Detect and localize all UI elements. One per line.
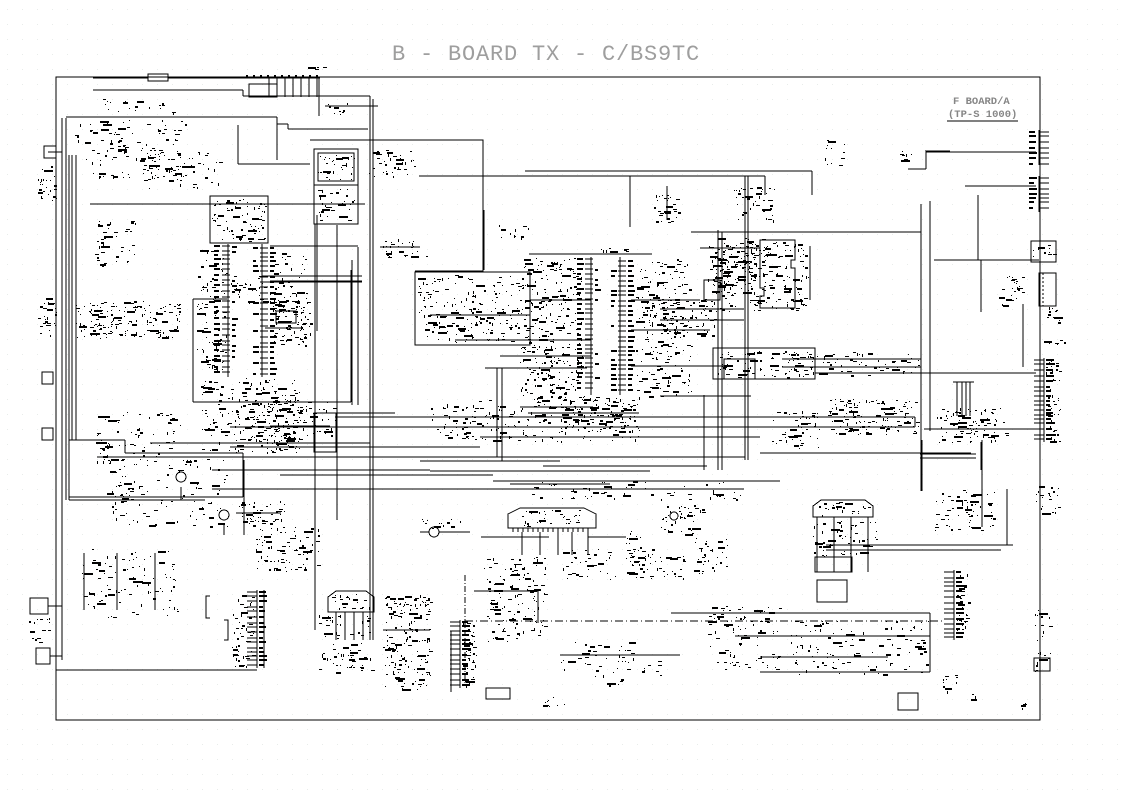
wire [929,201,931,431]
connector pin [300,77,302,97]
component box [815,557,852,572]
IC301 pins and labels [748,242,809,311]
wire [629,176,631,227]
dash-dot wire [465,620,945,622]
bus wire [480,436,760,438]
wire [760,656,888,658]
delay line pin [552,528,554,532]
AC box [898,693,918,710]
wire [168,77,320,79]
bus wire [493,480,780,482]
wire [66,116,277,118]
wire [631,365,725,367]
wire [362,612,364,640]
wire [50,655,62,657]
wire [288,128,368,130]
label cluster L05 [308,67,327,70]
transistor Q601 [176,472,186,482]
wire [357,247,359,405]
wire [587,532,589,555]
wire [925,150,950,152]
wire [961,382,963,416]
component cluster [231,276,277,304]
wire [588,536,626,538]
component cluster [383,239,428,258]
bus wire [230,446,480,448]
wire [316,215,318,331]
wire [815,372,1036,374]
wire [380,246,420,248]
connector pin [316,77,318,97]
connector CN803 [1031,241,1056,262]
right edge part [1036,486,1061,515]
inner box [724,359,755,379]
wire [826,549,1001,551]
wire [193,401,351,403]
wire [56,669,257,671]
cluster [487,608,548,642]
cluster [270,390,303,453]
cluster [96,412,181,451]
bus wire [150,442,370,444]
IF block contents [418,275,528,343]
wire [276,117,278,160]
wire [455,339,591,341]
wire [965,185,1036,187]
IC101 TDA main IC [214,244,277,377]
bus wire [782,366,921,368]
wire [496,368,498,457]
wire [372,99,374,640]
transformer T601 [429,527,439,537]
delay line pin [512,528,514,532]
IC801 label [819,502,871,517]
cluster [791,621,929,676]
tuner internal labels [318,155,355,180]
right mid cluster [713,238,768,286]
wire [439,531,470,533]
wire [521,532,523,555]
wire [926,151,1036,153]
connector right edge [1034,658,1050,671]
left edge labels [38,166,57,201]
ceramic filter CF601 [328,591,374,616]
tuner TU101 inner box [318,153,354,181]
wire [660,319,744,321]
small connectors left edge [42,372,53,384]
wire [212,488,398,490]
wire [481,536,549,538]
delay line pin [562,528,564,532]
wire [71,155,73,440]
wire [93,89,243,91]
wire [809,246,811,300]
label [543,697,565,707]
bus wire [510,483,610,485]
component cluster [734,187,775,223]
wire [920,204,922,491]
connector labels [1033,245,1057,257]
wire [61,118,63,660]
component cluster [256,527,321,572]
IF shield outer box [310,140,483,271]
tuner divider [314,184,358,186]
right edge part [1035,652,1051,672]
connector CN801 [1029,130,1049,165]
connector CN805 [944,570,964,640]
border ticks [246,75,318,77]
component box [817,580,847,602]
wire [666,186,668,220]
wire [276,118,278,124]
wire [920,372,1036,374]
bus wire [543,465,707,467]
dense cluster [828,399,920,435]
delay line pin [517,528,519,532]
wire [450,631,452,692]
connector CN804 dense [1034,358,1054,442]
cluster [629,549,658,579]
component cluster [141,150,223,189]
note text block [76,301,181,339]
center parts below IC201 [521,396,640,443]
wire [48,151,62,153]
wire [242,90,244,96]
wire [265,327,303,329]
wire [920,453,976,455]
jumper box J601 [486,688,510,699]
bus wire [420,460,560,462]
wire [280,474,493,476]
wire [83,553,85,610]
wire [420,531,429,533]
IC301 audio amp body [760,240,795,308]
tuner TU101 box [314,149,358,224]
wire [721,232,723,470]
wire [237,125,239,164]
wire [75,155,77,440]
wire [1022,304,1024,367]
IC201 jungle IC [577,257,635,395]
cluster [813,521,878,557]
IC201 label [601,248,629,253]
wire [816,517,818,572]
wire [125,452,243,454]
IC601 label and part [115,482,145,506]
wire [850,517,852,572]
CN601 labels [232,595,256,668]
wire [530,299,591,301]
connector pin long [318,77,320,116]
connector CN601 [247,590,267,668]
wire [981,440,983,527]
scatter cluster [708,606,782,670]
wire [1006,489,1008,545]
S-video jack box [1039,273,1056,306]
wire [236,512,281,514]
connector pin [284,77,286,97]
wire [528,412,639,414]
connector pin [308,77,310,97]
transistor Q801 [670,512,678,520]
wire [212,469,430,471]
wire [242,453,244,497]
IC201 right parts [636,259,693,398]
wire [921,440,923,491]
CF601 label [332,594,370,610]
wire [325,105,378,107]
wire [317,412,395,414]
dash-dot wire [464,575,466,684]
component cluster [661,299,717,337]
wire [925,152,927,169]
component box [314,413,336,452]
shield box parts [369,150,416,178]
wire [980,442,982,470]
cluster below CF601 [319,615,375,674]
cluster [563,549,616,580]
bus labels [532,481,741,501]
bus wire [782,358,921,360]
connector pin [268,77,270,97]
wire [500,355,591,357]
connector pin [276,77,278,97]
wire [243,460,245,535]
cluster [431,400,521,442]
wire [263,590,265,668]
bracket mark [224,620,228,640]
component cluster [75,120,187,181]
delay line pin [557,528,559,532]
IC101 label text [212,199,267,242]
wire [660,395,751,397]
wire [965,382,967,416]
connector CN101 [249,84,277,97]
wire [193,298,227,300]
wire [539,532,541,555]
cluster [772,411,820,449]
delay line pin [532,528,534,532]
IC801 vertical deflection [813,500,873,517]
filter labels [718,351,813,379]
bus wire [430,470,650,472]
DL201 label [522,510,581,527]
wire [350,270,352,402]
wire [867,517,869,572]
cluster [275,301,313,345]
test point labels [82,549,179,618]
wire [811,171,813,195]
wire [744,176,746,460]
wire [270,280,362,282]
wire [557,532,559,555]
board label F BOARD(A) [947,96,1018,121]
IC101 label box [210,196,268,243]
IC101 surrounding parts right [272,253,309,347]
wire [969,382,971,416]
left bottom labels [29,618,51,643]
wire [65,118,67,500]
jack labels [1044,340,1066,345]
component box [704,280,720,300]
component cluster antenna input [103,99,176,115]
wire [223,524,225,535]
wire [735,635,930,637]
connector J602 left edge [30,598,48,614]
wire [383,629,430,631]
labels right of DL201 [626,531,645,574]
wire [571,532,573,555]
connector CN804 labels [1046,361,1062,443]
IC201 left parts [520,258,583,399]
crystal filter box X201 [713,348,815,379]
delay line pin [522,528,524,532]
cluster [943,675,958,694]
wire [934,259,1039,261]
connector J101 left edge [44,146,56,158]
wire [671,612,930,614]
wire [314,224,316,630]
cluster [240,400,337,443]
wire [914,417,916,427]
bus wire [97,456,745,458]
cluster [659,556,686,580]
connector CN802 [1029,176,1049,212]
wire [243,95,370,97]
IC601 area parts [107,459,228,528]
wire [419,175,765,177]
T601 labels [422,519,461,529]
Q801 cluster [661,505,706,536]
wire [924,428,1044,430]
wire [700,247,760,249]
bus wire [335,416,915,418]
wire [929,613,931,672]
wire [631,329,710,331]
dashed jack [1042,273,1044,306]
wire [353,612,355,640]
wire [485,367,587,369]
delay line pin [577,528,579,532]
right edge part [1035,610,1053,641]
wire [180,487,182,500]
component cluster [654,195,681,223]
wire [192,299,194,402]
wire [287,124,289,129]
bus wire [230,426,915,428]
connector CN602 dense [450,620,470,688]
wire [154,553,156,610]
bracket mark [206,596,210,618]
wire [703,395,705,470]
delay line pin [542,528,544,532]
label text [499,225,529,240]
wire [270,245,358,247]
wire [920,457,976,459]
bus wire [69,496,243,498]
component box [276,311,296,323]
dense text cluster [937,408,1009,443]
IF block box [415,272,530,345]
schematic border frame [56,77,1040,720]
wire [980,260,982,312]
wire [953,381,974,383]
CN805 labels [957,574,971,631]
cluster [999,276,1025,307]
wire [68,155,70,500]
wire [262,281,362,283]
wire [826,544,1013,546]
wire [747,176,749,460]
wire [956,382,958,416]
delay line pin [587,528,589,532]
jack labels [1047,307,1063,324]
cluster [241,501,285,528]
cluster [97,442,160,464]
wire [691,231,921,233]
cluster [484,557,548,610]
IC201 bottom parts [561,398,639,431]
CN602 labels [463,623,477,688]
delay line pin [527,528,529,532]
small mark [1021,703,1027,710]
dense cluster [383,595,433,691]
connector pin [292,77,294,97]
wire [525,170,812,172]
delay line DL201 [508,508,596,528]
svg-text:B - BOARD TX - C/BS9TC: B - BOARD TX - C/BS9TC [392,42,700,67]
wire [336,225,338,520]
wire [48,605,62,607]
IC101 surrounding parts left [197,250,228,373]
wire [908,168,926,170]
IC301 left parts [706,245,759,312]
wire [270,425,330,427]
bus wire [212,488,744,490]
wire [344,612,346,640]
wire [537,591,539,623]
bus labels [789,352,920,377]
transistor Q602 [219,510,229,520]
wire [501,368,503,461]
wire [764,176,766,195]
wire [351,260,353,405]
cluster [694,538,728,574]
coil parts [328,103,348,115]
wire [474,590,538,592]
wire [277,123,288,125]
connector J603 left edge [36,648,50,664]
wire [335,612,337,640]
label text [900,151,912,162]
wire [560,654,680,656]
label RGB [971,694,977,701]
wire [717,230,719,470]
delay line pin [537,528,539,532]
wire [430,314,530,316]
wire [116,553,118,610]
wire [520,406,593,408]
Q601 labels [169,460,198,473]
wire [124,440,126,453]
cluster [239,506,285,522]
wire [90,203,365,205]
delay line pin [547,528,549,532]
delay line pin [567,528,569,532]
wire [483,210,485,270]
delay line pin [582,528,584,532]
wire [977,195,979,260]
